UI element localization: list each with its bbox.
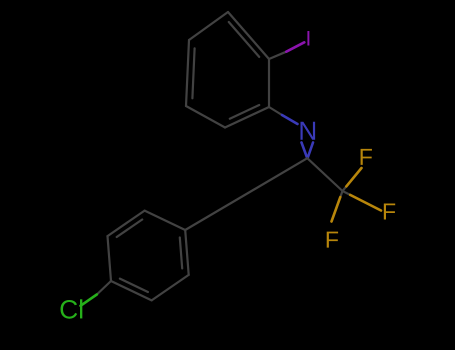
- wire ring1 inner double D-C: [230, 105, 259, 119]
- wire ring2 inner double C6-C1: [180, 238, 182, 269]
- wire ring2 edge C4-C5: [111, 281, 152, 300]
- atom label N: [300, 122, 315, 140]
- atom label F2: [384, 203, 395, 219]
- atom label F3: [327, 232, 338, 248]
- wire ring2 edge C5-C6: [152, 275, 189, 301]
- bond C-F3 (fluorine half): [332, 197, 341, 221]
- wire ring2 inner double C2-C3: [117, 220, 143, 238]
- wire ring1 edge E-F: [186, 40, 189, 106]
- bond C-Cl (chlorine half): [81, 295, 97, 306]
- bond imine C to chlorophenyl C1: [185, 158, 307, 230]
- bond C-I (iodine half): [286, 42, 304, 51]
- bond imine C to CF3 C: [307, 158, 342, 191]
- wire ring2 edge C1-C2: [145, 211, 186, 230]
- bond C-F1 (fluorine half): [346, 168, 361, 186]
- atom label Cl: [61, 300, 78, 319]
- benzene ring (2-iodophenyl): [186, 12, 269, 128]
- wire ring1 edge D-C: [225, 107, 269, 128]
- bond C-F1 (gray half): [343, 186, 347, 191]
- bond C-I (gray half): [269, 52, 286, 59]
- double bond C=N imine: [302, 143, 314, 158]
- bond C-F2 (fluorine half): [350, 195, 381, 211]
- benzene ring (4-chlorophenyl): [108, 211, 189, 301]
- wire ring2 edge C3-C4: [108, 236, 112, 281]
- wire ring2 inner double C4-C5: [120, 279, 148, 292]
- wire ring1 edge A-B: [228, 12, 269, 59]
- bond C-N aryl (nitrogen half): [282, 115, 298, 124]
- bond C-N aryl (gray half): [269, 107, 282, 115]
- wire ring1 edge B-D: [268, 59, 270, 107]
- wire ring1 edge C-E: [186, 106, 225, 128]
- bond C-F2 (gray half): [343, 191, 351, 195]
- bond C-F3 (gray half): [340, 191, 342, 197]
- wire ring1 edge F-A: [189, 12, 228, 40]
- atom label I: [307, 31, 309, 45]
- wire ring2 edge C2-C3: [108, 211, 145, 237]
- wire ring1 inner double A-B: [229, 22, 259, 57]
- wire ring2 edge C6-C1: [185, 230, 189, 275]
- wire ring1 inner double E-F: [192, 48, 194, 98]
- atom label F1: [361, 149, 372, 165]
- bond C-Cl (gray half): [97, 281, 111, 295]
